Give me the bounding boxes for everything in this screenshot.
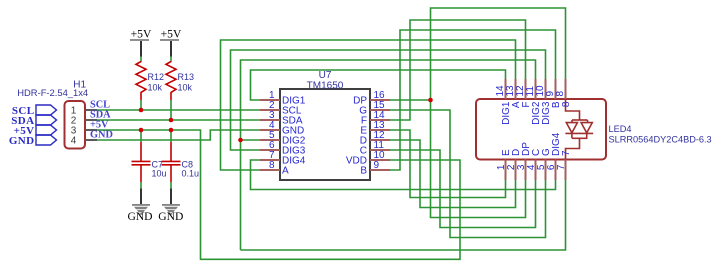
U7 pin 14 F (361, 110, 390, 126)
U7 pin 6 DIG3 (260, 140, 306, 156)
svg-text:B: B (360, 165, 367, 176)
svg-text:8: 8 (555, 91, 566, 97)
svg-text:A: A (282, 165, 289, 176)
U7 pin 11 C (360, 140, 390, 156)
H1 pin 2 (71, 116, 97, 127)
wire DP net bottom branch to LED4.3 (431, 100, 526, 218)
wire C net U7.11 to LED4.4 (390, 150, 536, 228)
svg-text:GND: GND (9, 135, 35, 147)
wire C7 top (140, 130, 142, 142)
resistor R12 10k (136, 62, 164, 101)
U7 pin 8 A (260, 160, 289, 176)
wire C7 to GND (140, 182, 142, 189)
wire DIG2 net riser to LED4.11 (241, 60, 536, 250)
wire R13 top lead (170, 57, 172, 63)
global label SDA (11, 115, 56, 127)
LED4 pin 2 D (506, 149, 522, 180)
IC U7 TM1650 body (280, 70, 370, 180)
U7 pin 15 G (359, 100, 390, 116)
wire R12 to SCL (140, 100, 142, 110)
capacitor C8 0.1u (162, 142, 200, 182)
wire C8 top (170, 130, 172, 142)
U7 pin 5 DIG2 (260, 130, 306, 146)
wire DIG4 net U7.7 to LED4.6 (251, 160, 556, 190)
junction C8-+5V (169, 128, 174, 133)
LED4 pin 10 DIG3 (535, 79, 552, 125)
resistor R13 10k (166, 62, 194, 101)
LED4 pin 5 G (536, 148, 552, 180)
svg-text:10u: 10u (152, 169, 167, 179)
H1 pin 3 (71, 126, 97, 137)
wire DIG3 net U7.6 to LED4.10 (231, 50, 546, 150)
H1 pin 4 (71, 136, 97, 147)
svg-text:LED4: LED4 (609, 124, 632, 134)
global label GND (9, 135, 57, 147)
svg-text:R13: R13 (178, 72, 195, 82)
display LED4 SLRR0564DY2C4BD-6.3 body (476, 99, 712, 160)
wire B net U7.9 to LED4.9 (390, 30, 556, 170)
LED4 pin 11 DIG2 (525, 79, 542, 125)
junction C7-+5V (139, 128, 144, 133)
svg-text:7: 7 (561, 150, 572, 156)
junction DIG2 node (238, 138, 243, 143)
LED4 pin 1 E (496, 149, 512, 180)
U7 pin 9 B (360, 160, 390, 176)
svg-text:9: 9 (374, 160, 380, 171)
LED4 pin 6 DIG4 (546, 132, 562, 180)
LED4 pin 4 C (526, 149, 542, 180)
connector H1 HDR-F-2.54_1x4 (17, 80, 88, 149)
ground symbol GND (C7) (127, 189, 152, 224)
LED4 pin 14 DIG1 (495, 79, 512, 125)
svg-text:8: 8 (561, 101, 572, 107)
U7 pin 4 GND (260, 120, 304, 136)
wire E net U7.13 to LED4.1 (390, 130, 506, 198)
wire C8 to GND (170, 182, 172, 189)
capacitor C7 10u (132, 142, 167, 182)
LED4 pin 3 DP (516, 142, 532, 180)
wire +5V net (97, 130, 460, 259)
svg-text:10k: 10k (178, 83, 193, 93)
power symbol +5V (R13) (160, 28, 182, 57)
wire DIG2 net U7.5 branch (241, 139, 261, 141)
global label SCL (12, 105, 57, 117)
svg-text:GND: GND (127, 210, 152, 223)
svg-text:8: 8 (269, 160, 275, 171)
svg-text:+5V: +5V (131, 28, 152, 41)
svg-text:TM1650: TM1650 (307, 81, 344, 92)
U7 pin 2 SCL (260, 100, 302, 116)
global label +5V (14, 125, 57, 137)
U7 pin 16 DP (353, 90, 390, 106)
svg-text:GND: GND (158, 210, 183, 223)
wire GND net (97, 130, 260, 140)
wire D net U7.12 to LED4.2 (390, 140, 516, 208)
LED4 pin 9 B (545, 79, 562, 108)
svg-text:HDR-F-2.54_1x4: HDR-F-2.54_1x4 (17, 87, 88, 98)
junction DP node (428, 98, 433, 103)
U7 pin 3 SDA (260, 110, 303, 126)
LED4 colon diode pair (565, 99, 593, 160)
svg-text:4: 4 (71, 136, 77, 147)
svg-text:0.1u: 0.1u (182, 169, 200, 179)
wire G net U7.15 to LED4.5 (390, 110, 546, 238)
LED4 pin 8 colon anode (555, 79, 572, 107)
svg-text:+5V: +5V (161, 28, 182, 41)
LED4 pin 7 colon cathode (556, 150, 572, 180)
wire DIG1 net U7.1 to LED4.14 (251, 70, 506, 100)
wire A net U7.8 to LED4.13 (221, 40, 516, 170)
junction R12-SCL (139, 108, 144, 113)
wire R13 to SDA (170, 100, 172, 120)
svg-text:SLRR0564DY2C4BD-6.3: SLRR0564DY2C4BD-6.3 (609, 135, 712, 145)
svg-text:R12: R12 (148, 72, 165, 82)
LED4 pin 13 A (505, 79, 522, 108)
ground symbol GND (C8) (158, 189, 183, 224)
svg-text:10k: 10k (148, 83, 163, 93)
LED4 pin 12 F (515, 79, 532, 108)
svg-text:7: 7 (556, 164, 567, 170)
wire F net U7.14 to LED4.12 (390, 20, 526, 120)
H1 pin 1 (71, 106, 97, 117)
wire DIG2 net bottom to LED4.7 (241, 180, 566, 250)
svg-text:GND: GND (90, 130, 113, 141)
svg-text:U7: U7 (319, 70, 332, 81)
junction R13-SDA (169, 118, 174, 123)
wire SDA net (97, 119, 260, 121)
wire DP net U7.16 top branch to LED4.8 (390, 8, 566, 100)
U7 pin 13 E (360, 120, 390, 136)
U7 pin 7 DIG4 (260, 150, 306, 166)
wire SCL net (97, 109, 260, 111)
U7 pin 1 DIG1 (260, 90, 306, 106)
U7 pin 10 VDD (346, 150, 390, 166)
power symbol +5V (R12) (130, 28, 152, 57)
U7 pin 12 D (360, 130, 390, 146)
wire R12 top lead (140, 57, 142, 63)
